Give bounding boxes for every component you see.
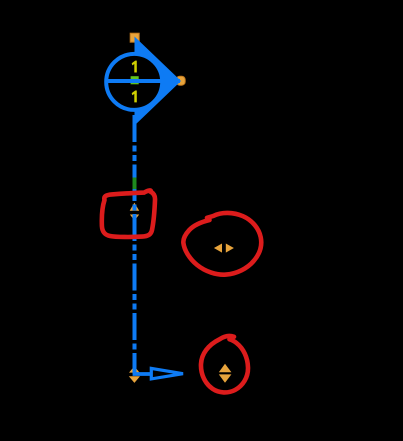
transformer T1 body triangle [135, 37, 182, 126]
marker pair M2 left-triangle [214, 244, 222, 253]
marker pair M4 up-triangle [219, 364, 232, 372]
annotation red loop A2 around marker M2 [183, 213, 261, 275]
wire end marker M3 up-triangle [129, 366, 140, 372]
pin square right of transformer [176, 76, 185, 85]
marker pair M2 right-triangle [226, 244, 234, 253]
wire W1 dash patch above bottom corner [133, 358, 137, 364]
pin square top of transformer [130, 33, 139, 42]
marker pair M4 down-triangle [219, 374, 232, 382]
annotation red loop A3 around marker M4 [201, 336, 248, 393]
transformer T1 circle [106, 54, 162, 110]
connection marker pair M1 down-triangle [130, 215, 139, 221]
label turns ratio 1 (top) [132, 61, 137, 73]
hollow arrow triangle pointing right [151, 368, 183, 379]
transformer T1 horizontal axis line [105, 79, 181, 83]
connection marker pair M1 up-triangle [130, 203, 140, 211]
annotation red loop A1 around marker M1 [102, 190, 155, 237]
wire W1 vertical dash-dot [133, 115, 137, 374]
label turns ratio 1 (bottom) [132, 91, 137, 103]
wire W1 green highlighted segment [133, 178, 137, 190]
wire end marker M3 down-triangle [129, 376, 140, 383]
horizontal wire stub to arrow [133, 372, 152, 376]
turns-ratio green handle square [131, 76, 139, 84]
